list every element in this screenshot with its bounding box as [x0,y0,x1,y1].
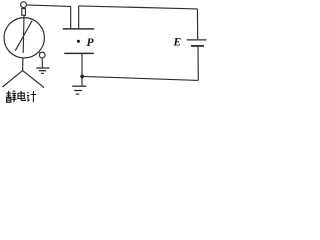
battery E short plate [191,45,204,47]
case-terminal connector [39,52,40,55]
electrometer top terminal [21,2,27,8]
electrometer case circle [4,18,44,58]
ground (electrometer) bar 3 [41,72,44,74]
ground (bottom) bar 1 [72,85,86,87]
ground (electrometer) bar 2 [39,70,46,72]
ground (bottom) bar 2 [74,90,82,92]
capacitor top plate [63,28,94,30]
right wire upper [196,9,198,39]
glyph dian [18,91,26,101]
wire terminal to capacitor left lead [26,5,70,7]
side ground lead [41,58,43,67]
electrometer stem rect [22,9,26,16]
label 静电计 (drawn glyphs) [6,91,37,102]
junction dot (node) [80,75,84,79]
glyph jing left qing [6,91,12,97]
ground (electrometer) bar 1 [36,67,49,69]
electrometer rod [22,16,25,54]
right wire lower [197,47,199,81]
battery E long plate [187,39,207,41]
capacitor bottom stem [81,54,83,86]
capacitor bottom plate [64,52,94,54]
bottom wire to battery [82,76,198,80]
capacitor left lead [70,6,72,29]
stand stem [22,58,24,71]
ground (bottom) bar 3 [76,93,80,95]
capacitor right lead [78,6,80,28]
electrometer side terminal [39,52,45,58]
stand left leg [3,71,23,87]
svg-text:E: E [173,37,182,49]
node dot beside P [77,40,80,43]
stand right leg [23,71,44,88]
electrometer needle [15,21,32,51]
top wire to battery [79,6,198,9]
glyph ji [27,92,30,101]
glyph jing right zheng [12,91,17,102]
svg-text:P: P [87,37,95,49]
